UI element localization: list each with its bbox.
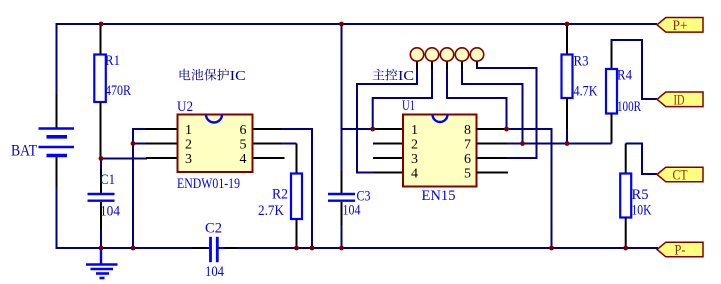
svg-text:R4: R4 [617,68,632,84]
svg-text:3: 3 [185,152,192,167]
capacitor C2 [193,221,239,281]
connector pad 5 [470,48,483,67]
U2 pin 3 stub [146,157,178,159]
capacitor C1 [88,159,121,249]
wire U2 pin5 to R2 [282,143,297,145]
port P+ [657,18,703,34]
capacitor C3 [328,171,371,248]
wire C3 rail from top rail [341,24,343,172]
wire pad2 to U1 pin1 node [373,69,432,129]
svg-text:7: 7 [464,137,471,152]
wire bottom rail right of C2 [237,247,658,249]
connector pad 1 [410,48,423,70]
U1 pin 8 stub [477,128,508,130]
svg-text:3: 3 [411,152,418,167]
label 电池保护IC [180,69,246,84]
svg-text:P-: P- [675,243,686,259]
wire pad3 to U1 pin8 node [447,69,507,129]
battery BAT [11,94,74,187]
U1 pin 7 stub [477,143,508,145]
U2 pin 2 stub [146,143,178,145]
wire battery bottom to rail [57,186,194,248]
U2 pin 5 stub [253,143,284,145]
svg-text:R1: R1 [105,53,120,69]
resistor R3 [562,24,598,144]
U1 pin 3 stub [373,157,403,159]
svg-text:4.7K: 4.7K [574,84,598,100]
svg-text:2: 2 [411,137,418,152]
resistor R1 [94,24,131,159]
svg-text:EN15: EN15 [422,188,456,204]
svg-text:10K: 10K [632,203,652,219]
connector pad 2 [425,48,438,70]
wire pad1 to U1 pin4 [357,69,417,173]
U2 pin 1 stub [146,128,178,130]
connector pad 3 [440,48,453,70]
svg-text:104: 104 [205,264,224,280]
svg-text:4: 4 [240,152,247,167]
wire U1 pin8 to bottom rail [507,129,552,248]
wire C3 node to U1 pin1 [342,128,373,130]
svg-text:104: 104 [343,203,361,219]
U2 pin 6 stub [253,128,284,130]
svg-text:R3: R3 [574,54,589,70]
svg-text:P+: P+ [673,18,688,34]
resistor R4 [606,40,657,144]
svg-text:ID: ID [674,92,685,108]
svg-text:104: 104 [100,204,120,220]
port CT [657,167,703,183]
port P- [657,242,703,258]
svg-text:6: 6 [240,123,247,138]
svg-text:U1: U1 [402,98,415,114]
resistor R2 [258,144,302,249]
wire pad4 to pin7 row [462,69,523,144]
wire pad5 to U1 pin6 [477,66,537,159]
svg-text:R5: R5 [632,187,649,203]
U1 pin 6 stub [477,157,508,159]
connector pad 4 [455,48,468,70]
svg-text:5: 5 [240,137,247,152]
svg-text:ENDW01-19: ENDW01-19 [177,176,240,192]
svg-text:IC: IC [398,69,414,84]
svg-text:2: 2 [185,137,192,152]
U2 pin 4 stub [253,157,285,159]
svg-text:U2: U2 [177,99,193,115]
ground [86,248,118,278]
U1 pin 4 stub [373,172,403,174]
label 主控IC [373,69,414,84]
svg-text:IC: IC [230,69,246,84]
resistor R5 [620,144,657,249]
svg-text:1: 1 [411,123,418,138]
svg-text:5: 5 [464,166,471,181]
wire U2 left rail [133,129,147,248]
svg-text:C1: C1 [100,172,115,188]
svg-text:R2: R2 [272,187,288,203]
U1 pin 5 stub [477,172,509,174]
op-amp U2 body [177,99,253,192]
wire top rail [57,24,658,95]
svg-text:2.7K: 2.7K [258,203,284,219]
U1 pin 1 stub [373,128,403,130]
wire pin7 row to R3 and R4 [507,143,612,145]
svg-text:100R: 100R [617,99,641,115]
svg-text:6: 6 [464,152,471,167]
svg-text:BAT: BAT [11,143,37,160]
svg-text:470R: 470R [105,83,131,99]
svg-text:CT: CT [673,168,688,184]
svg-text:1: 1 [185,123,192,138]
op-amp U1 body [402,98,477,204]
svg-text:C2: C2 [205,221,222,237]
port ID [657,92,703,108]
wire U2 pin6 to bottom rail [282,129,312,248]
svg-text:8: 8 [464,123,471,138]
U1 pin 2 stub [373,143,403,145]
wire R1/C1 node to U2 pin3 [101,158,147,160]
svg-text:4: 4 [411,166,418,181]
